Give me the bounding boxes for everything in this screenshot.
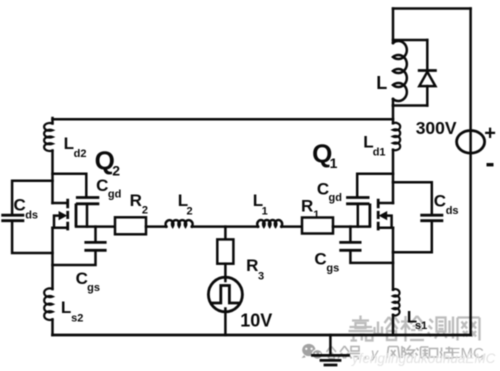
svg-text:2: 2 [187, 205, 193, 217]
transistor Q1 source lead [379, 226, 393, 229]
wire right outer rail [469, 9, 472, 336]
inductor Ld2 [44, 123, 52, 151]
wire left rail to bottom [51, 319, 54, 335]
diode D1 triangle [419, 72, 435, 86]
svg-text:C: C [14, 195, 26, 214]
svg-text:1: 1 [330, 155, 338, 171]
wire Cds left bottom return [12, 222, 52, 253]
transistor Q1 gate bar [368, 204, 371, 227]
capacitor Cgs Q1 lead [349, 227, 352, 241]
watermark small char kou [430, 349, 438, 358]
diode D1 cathode bar [419, 69, 435, 72]
diode D1 top lead [426, 40, 429, 71]
wire right rail mid section [392, 106, 395, 124]
transistor Q2 arrow head [59, 211, 68, 220]
ground stub [329, 335, 332, 355]
watermark small char du [416, 347, 429, 359]
capacitor Cgs Q1 plates [341, 242, 360, 250]
svg-text:C: C [317, 180, 329, 199]
svg-text:R: R [246, 256, 258, 275]
capacitor Cgd Q2 plates [77, 198, 98, 204]
svg-text:gs: gs [87, 282, 100, 294]
transistor Q1 drain lead [379, 202, 393, 205]
svg-text:gs: gs [326, 262, 339, 274]
wire left rail source section [51, 228, 54, 289]
svg-text:1: 1 [313, 209, 319, 221]
svg-text:yfenglingdukouhuaEMC: yfenglingdukouhuaEMC [351, 351, 496, 366]
svg-text:L: L [376, 73, 387, 93]
svg-text:R: R [130, 191, 142, 210]
wire top box left vertical upper [392, 9, 395, 44]
transistor Q2 body arrow line [54, 216, 60, 228]
inductor L1 [257, 220, 282, 227]
transistor Q1 arrow head [379, 211, 388, 220]
resistor R1 [302, 218, 333, 234]
wire pulse source to bottom rail [224, 309, 227, 336]
svg-text:300V: 300V [416, 118, 457, 138]
pulse source V1 circle [208, 277, 242, 312]
svg-text:ds: ds [446, 205, 459, 217]
svg-text:2: 2 [142, 204, 148, 216]
capacitor Cgd Q1 plates [348, 198, 369, 204]
transistor Q2 source lead [53, 226, 68, 229]
watermark big char yu [375, 316, 400, 340]
svg-text:s1: s1 [415, 320, 427, 332]
wire branch to Cds left [12, 181, 52, 214]
watermark big char jia [349, 316, 374, 342]
wire L bottom stub [392, 99, 395, 106]
watermark small char hua [440, 347, 453, 359]
svg-text:s2: s2 [71, 312, 83, 324]
svg-text:gd: gd [108, 188, 121, 200]
wire left rail upper stub [51, 118, 54, 124]
watermark big char jian [401, 316, 424, 342]
ground bars [313, 355, 349, 365]
resistor R2 [115, 217, 146, 234]
capacitor Cds right branch [393, 182, 432, 213]
wire top box inner bottom horizontal [393, 104, 427, 107]
svg-text:1: 1 [262, 205, 268, 217]
svg-text:d2: d2 [74, 148, 87, 160]
svg-text:2: 2 [112, 162, 120, 178]
svg-text:C: C [434, 192, 446, 211]
wire L2 to L1 with junction [192, 225, 258, 228]
capacitor Cgs Q2 lead [94, 227, 97, 241]
svg-text:gd: gd [329, 192, 342, 204]
watermark small char zhong [338, 346, 352, 359]
wire Cgd Q1 to gate wire [357, 205, 360, 227]
watermark small char hao [350, 347, 361, 360]
svg-text:L: L [64, 134, 74, 153]
svg-text:ds: ds [25, 210, 38, 222]
svg-text:10V: 10V [240, 311, 272, 331]
wire top box inner top horizontal [393, 39, 427, 42]
inductor L top [393, 41, 407, 101]
inductor Ls2 [44, 288, 52, 320]
capacitor Cgs Q2 plates [86, 242, 105, 250]
wire R1 to Q1 gate [333, 225, 370, 228]
wire Cgd Q2 to gate wire [86, 205, 89, 227]
wire R2 to L2 [146, 225, 166, 228]
watermark wechat icon [302, 344, 324, 361]
watermark big char ce [428, 317, 453, 339]
svg-text:L: L [61, 298, 71, 317]
transistor Q2 gate bar [75, 204, 78, 227]
wire right rail to bottom [392, 315, 395, 335]
svg-text:R: R [301, 197, 313, 216]
wire top horizontal bus [53, 118, 394, 121]
wire Cgs Q2 return [53, 252, 96, 265]
watermark big char wang [458, 318, 480, 341]
transistor Q2 channel segments [66, 199, 69, 231]
capacitor Cds right plates [422, 215, 442, 221]
wire gate Q2 to R2 [76, 225, 115, 228]
transistor Q1 body arrow line [386, 216, 392, 228]
inductor Ls1 [393, 289, 400, 315]
watermark small char ling [402, 346, 415, 359]
wire top box top rail [393, 7, 471, 10]
svg-text:d1: d1 [373, 146, 386, 158]
transistor Q2 drain lead [53, 202, 68, 205]
svg-text:C: C [314, 249, 326, 268]
wire left rail drain section [51, 151, 54, 204]
wire bottom rail [53, 334, 471, 337]
diode D1 bottom lead [426, 86, 429, 105]
wire right rail drain section [392, 150, 395, 203]
inductor L2 [166, 220, 193, 226]
wire right rail source section [392, 228, 395, 290]
wire junction to R3 [224, 227, 227, 240]
inductor Ld1 [393, 123, 400, 150]
watermark small char feng [387, 347, 400, 359]
wire L1 to R1 [281, 225, 302, 228]
wire Cgs Q1 return [350, 252, 393, 263]
svg-text:3: 3 [258, 270, 264, 282]
wire R3 to pulse source [224, 264, 227, 281]
watermark small char gong [327, 347, 337, 359]
resistor R3 [217, 239, 233, 263]
source 300V ellipse [457, 131, 485, 154]
wire branch to Cgd Q2 [53, 174, 87, 196]
svg-text:C: C [96, 176, 108, 195]
wire Cgd Q1 up branch [357, 174, 393, 196]
svg-text:C: C [76, 269, 88, 288]
wire Cds right return [393, 222, 432, 252]
pulse source waveform glyph [211, 286, 238, 304]
capacitor Cds left [3, 215, 23, 221]
svg-text:+: + [484, 123, 496, 145]
label minus [487, 163, 494, 166]
transistor Q1 channel segments [377, 199, 380, 231]
